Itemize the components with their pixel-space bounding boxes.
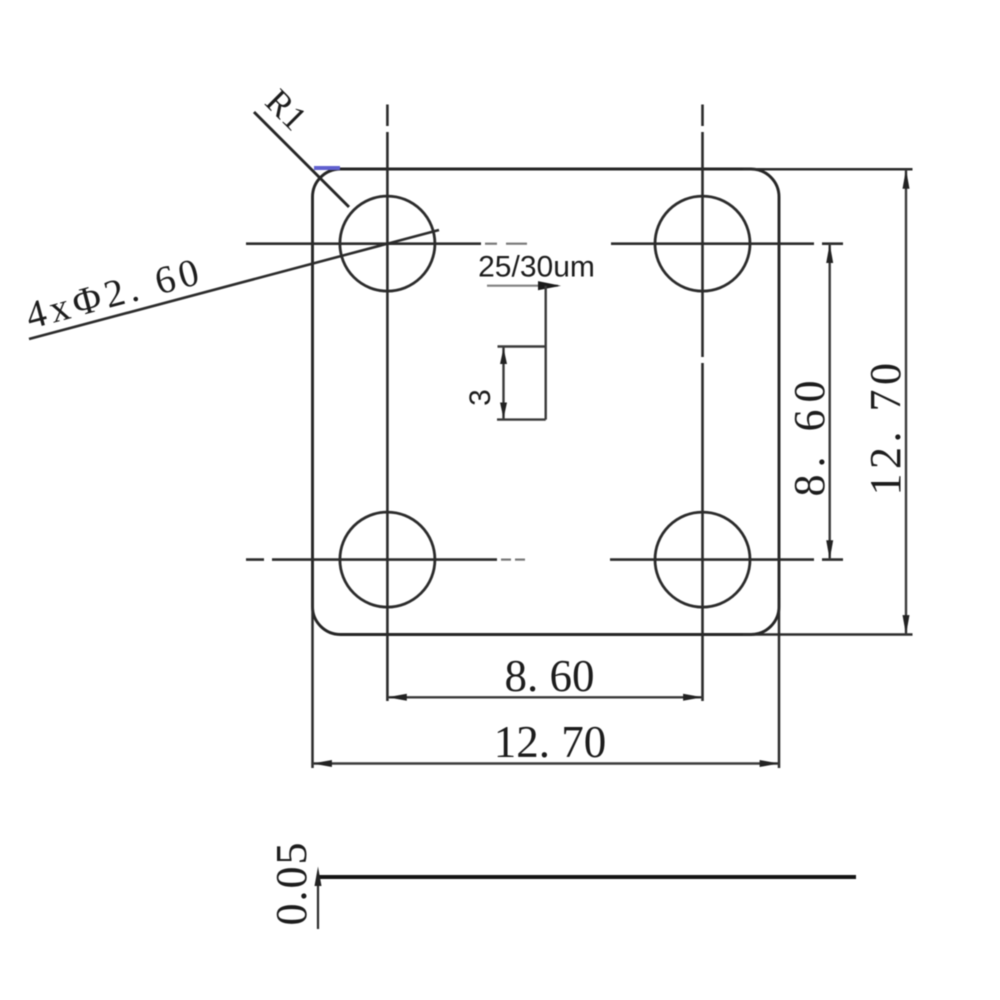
svg-text:4xΦ2. 60: 4xΦ2. 60	[21, 249, 207, 337]
svg-text:8. 60: 8. 60	[505, 651, 595, 701]
svg-text:3: 3	[464, 389, 497, 406]
svg-text:12. 70: 12. 70	[494, 717, 607, 767]
svg-text:0.05: 0.05	[267, 841, 316, 926]
svg-text:R1: R1	[258, 82, 314, 138]
svg-text:12. 70: 12. 70	[861, 359, 910, 496]
svg-text:8. 60: 8. 60	[785, 374, 834, 497]
svg-text:25/30um: 25/30um	[478, 251, 595, 284]
